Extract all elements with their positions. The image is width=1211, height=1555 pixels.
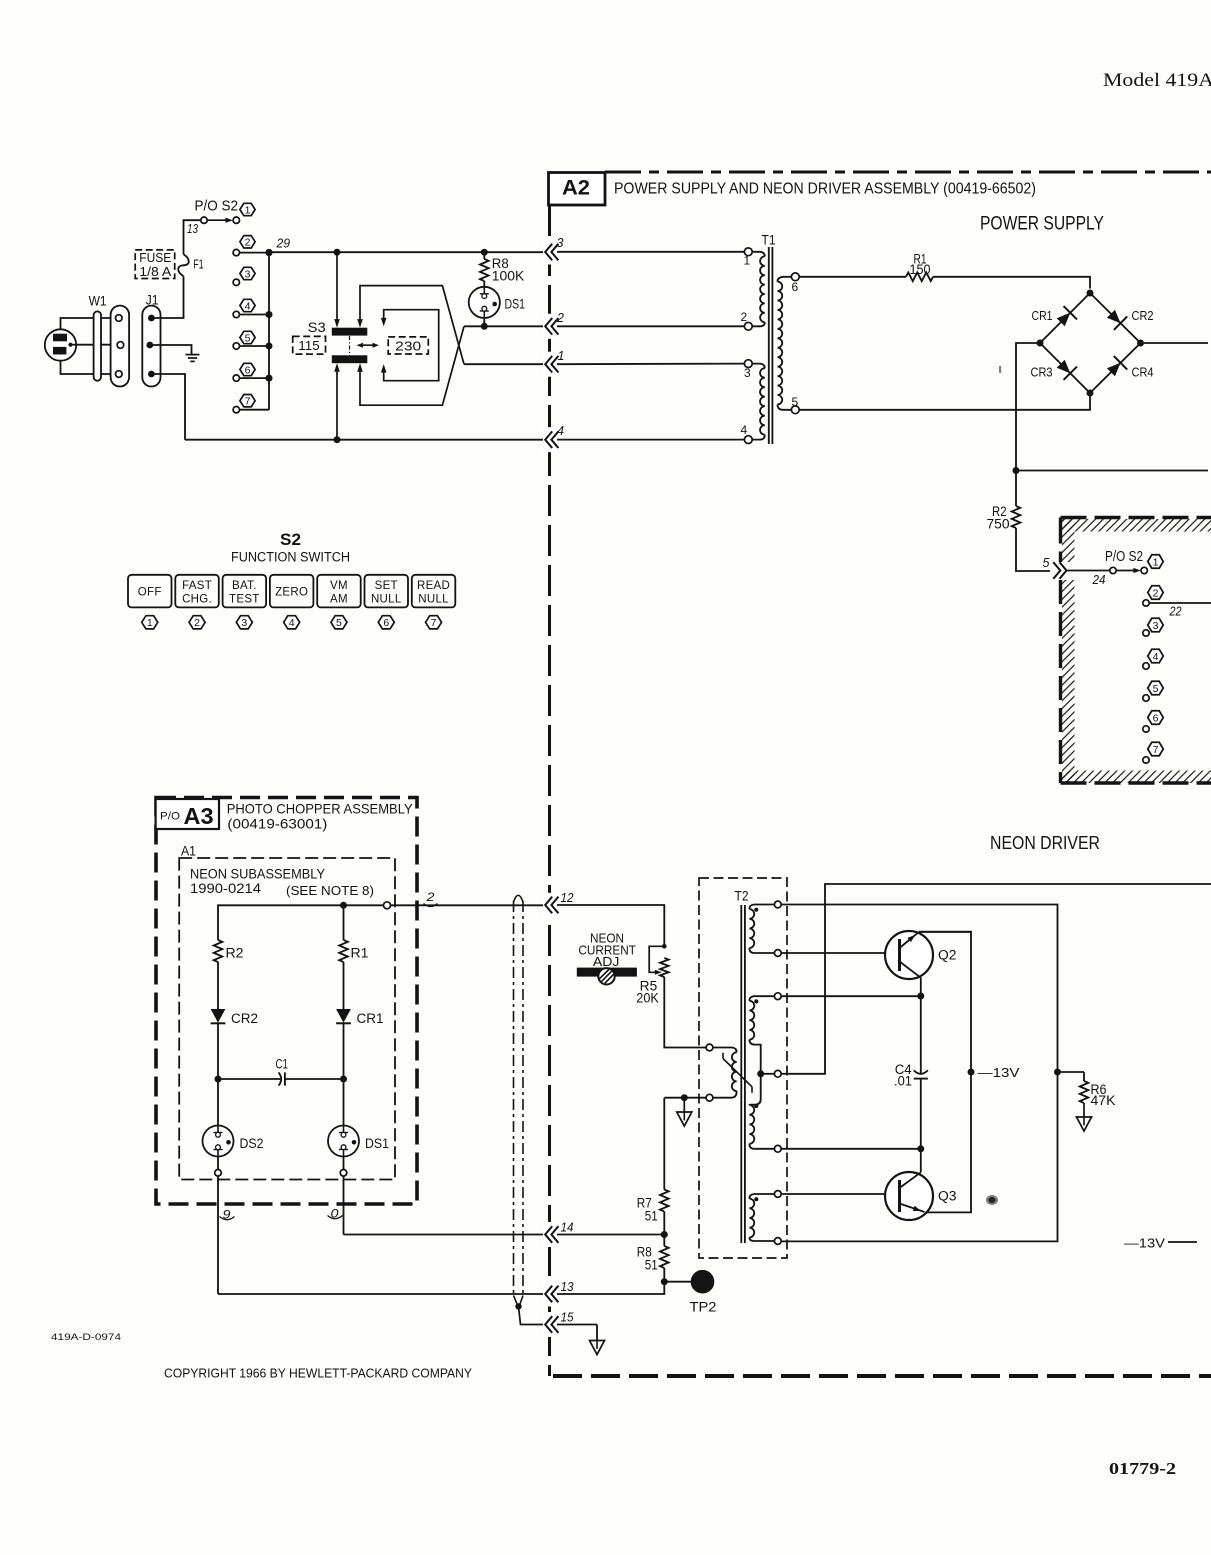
svg-text:OFF: OFF: [138, 587, 162, 599]
svg-text:COPYRIGHT 1966 BY HEWLETT-PACK: COPYRIGHT 1966 BY HEWLETT-PACKARD COMPAN…: [164, 1367, 473, 1381]
svg-text:(00419-63001): (00419-63001): [227, 816, 327, 832]
svg-text:POWER SUPPLY AND NEON DRIVER A: POWER SUPPLY AND NEON DRIVER ASSEMBLY (0…: [614, 181, 1036, 198]
svg-text:4: 4: [557, 424, 564, 438]
svg-text:1: 1: [744, 254, 751, 268]
svg-text:7: 7: [431, 617, 437, 629]
svg-text:BAT.: BAT.: [232, 580, 257, 592]
svg-text:6: 6: [792, 280, 799, 294]
svg-text:5: 5: [245, 332, 251, 344]
svg-text:6: 6: [1153, 712, 1159, 724]
svg-text:VM: VM: [330, 580, 348, 592]
svg-text:A2: A2: [562, 177, 590, 200]
svg-text:29: 29: [276, 237, 291, 251]
svg-text:—13V: —13V: [978, 1065, 1020, 1080]
svg-text:SET: SET: [375, 580, 398, 592]
svg-text:5: 5: [792, 395, 799, 409]
svg-text:A3: A3: [184, 803, 214, 829]
svg-text:Model 419A: Model 419A: [1103, 70, 1211, 91]
svg-text:CR4: CR4: [1132, 365, 1154, 380]
svg-text:22: 22: [1169, 605, 1182, 619]
svg-text:13: 13: [561, 1280, 574, 1294]
svg-text:.01: .01: [894, 1073, 912, 1088]
svg-text:DS1: DS1: [365, 1136, 389, 1151]
svg-text:3: 3: [1153, 620, 1159, 632]
svg-text:2: 2: [741, 310, 748, 324]
svg-text:S3: S3: [308, 319, 326, 335]
svg-text:2: 2: [245, 237, 251, 249]
svg-text:3: 3: [245, 268, 251, 280]
svg-text:PHOTO CHOPPER ASSEMBLY: PHOTO CHOPPER ASSEMBLY: [227, 801, 414, 817]
svg-text:1990-0214: 1990-0214: [190, 881, 262, 896]
svg-text:A1: A1: [181, 844, 196, 859]
svg-text:4: 4: [289, 617, 295, 629]
svg-text:S2: S2: [280, 531, 301, 549]
svg-text:5: 5: [336, 617, 342, 629]
svg-text:51: 51: [645, 1258, 658, 1273]
svg-text:230: 230: [395, 338, 421, 353]
svg-text:FUSE: FUSE: [139, 251, 171, 265]
svg-text:3: 3: [744, 366, 751, 380]
svg-text:(SEE NOTE 8): (SEE NOTE 8): [286, 884, 374, 898]
svg-text:NEON SUBASSEMBLY: NEON SUBASSEMBLY: [190, 867, 325, 882]
svg-text:14: 14: [561, 1221, 574, 1235]
svg-text:R1: R1: [351, 946, 369, 961]
svg-text:51: 51: [645, 1209, 658, 1224]
svg-text:F1: F1: [193, 256, 204, 271]
svg-text:DS2: DS2: [240, 1136, 264, 1151]
svg-text:CR1: CR1: [357, 1011, 384, 1026]
svg-text:P/O: P/O: [160, 811, 180, 823]
svg-text:2: 2: [425, 890, 435, 904]
svg-text:1: 1: [147, 617, 153, 629]
svg-text:15: 15: [561, 1311, 574, 1325]
svg-text:2: 2: [194, 617, 200, 629]
svg-text:750: 750: [987, 517, 1010, 532]
svg-text:T1: T1: [762, 233, 776, 248]
svg-text:100K: 100K: [492, 269, 525, 284]
svg-text:6: 6: [245, 364, 251, 376]
svg-text:CR2: CR2: [231, 1011, 258, 1026]
svg-text:CHG.: CHG.: [182, 594, 212, 606]
svg-text:CR3: CR3: [1031, 365, 1053, 380]
svg-text:NEON DRIVER: NEON DRIVER: [990, 833, 1100, 853]
svg-text:4: 4: [245, 300, 251, 312]
svg-text:1: 1: [245, 204, 251, 216]
svg-text:1/8 A: 1/8 A: [139, 265, 172, 279]
svg-text:CR2: CR2: [1132, 308, 1154, 323]
svg-text:13: 13: [187, 222, 198, 236]
svg-text:CR1: CR1: [1032, 308, 1053, 323]
svg-text:20K: 20K: [636, 991, 659, 1006]
svg-text:T2: T2: [735, 889, 749, 904]
svg-text:5: 5: [1153, 683, 1159, 695]
svg-text:4: 4: [741, 423, 748, 437]
svg-text:1: 1: [1153, 556, 1159, 568]
svg-text:NULL: NULL: [418, 594, 449, 606]
svg-text:7: 7: [1153, 744, 1159, 756]
svg-text:READ: READ: [417, 580, 450, 592]
svg-text:FAST: FAST: [182, 580, 212, 592]
svg-text:ADJ: ADJ: [593, 954, 620, 969]
svg-text:NULL: NULL: [371, 594, 402, 606]
svg-text:2: 2: [1153, 587, 1159, 599]
svg-text:01779-2: 01779-2: [1109, 1459, 1176, 1478]
svg-text:6: 6: [383, 617, 389, 629]
svg-text:4: 4: [1153, 651, 1159, 663]
svg-text:P/O S2: P/O S2: [195, 198, 239, 215]
svg-text:Q2: Q2: [938, 948, 957, 963]
svg-text:R2: R2: [226, 946, 244, 961]
svg-text:FUNCTION SWITCH: FUNCTION SWITCH: [231, 550, 350, 565]
svg-text:12: 12: [561, 891, 574, 905]
svg-text:J1: J1: [146, 293, 159, 308]
svg-text:TEST: TEST: [229, 594, 260, 606]
svg-text:POWER SUPPLY: POWER SUPPLY: [980, 214, 1104, 235]
svg-text:1: 1: [558, 349, 565, 363]
svg-text:24: 24: [1092, 573, 1106, 587]
svg-text:TP2: TP2: [690, 1300, 717, 1315]
svg-text:3: 3: [557, 236, 564, 250]
svg-text:115: 115: [298, 338, 320, 353]
svg-text:W1: W1: [89, 294, 107, 309]
svg-text:C1: C1: [276, 1057, 289, 1072]
svg-text:5: 5: [1043, 556, 1050, 570]
svg-text:Q3: Q3: [938, 1189, 957, 1204]
svg-text:ZERO: ZERO: [275, 587, 308, 599]
svg-text:—13V: —13V: [1124, 1236, 1165, 1251]
svg-text:150: 150: [910, 262, 931, 277]
svg-text:419A-D-0974: 419A-D-0974: [51, 1332, 121, 1343]
svg-text:47K: 47K: [1091, 1093, 1116, 1108]
svg-text:7: 7: [245, 395, 251, 407]
svg-text:AM: AM: [330, 594, 348, 606]
svg-text:2: 2: [556, 311, 564, 325]
svg-text:DS1: DS1: [505, 297, 526, 312]
svg-text:3: 3: [241, 617, 247, 629]
svg-text:P/O S2: P/O S2: [1105, 548, 1143, 565]
